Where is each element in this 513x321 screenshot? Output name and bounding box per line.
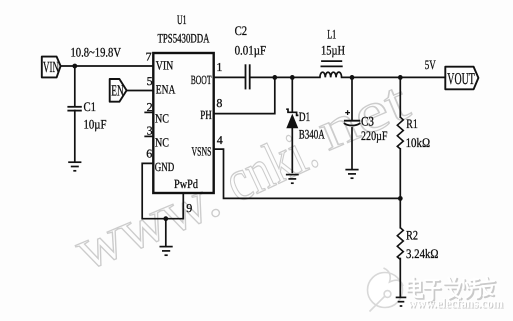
svg-text:10µF: 10µF (84, 117, 107, 132)
svg-text:0.01µF: 0.01µF (235, 43, 267, 58)
svg-text:4: 4 (217, 133, 223, 147)
svg-text:BOOT: BOOT (191, 73, 212, 87)
svg-text:D1: D1 (299, 109, 311, 124)
svg-text:VIN: VIN (43, 59, 59, 76)
svg-text:10.8~19.8V: 10.8~19.8V (71, 44, 122, 59)
svg-text:10kΩ: 10kΩ (406, 135, 431, 150)
svg-text:5V: 5V (425, 57, 436, 72)
svg-text:VOUT: VOUT (447, 69, 475, 88)
svg-text:U1: U1 (177, 12, 187, 27)
svg-text:3: 3 (147, 123, 153, 137)
svg-text:9: 9 (186, 201, 192, 215)
svg-text:NC: NC (155, 135, 169, 149)
svg-text:R2: R2 (406, 228, 418, 243)
svg-text:PH: PH (200, 108, 212, 122)
svg-text:R1: R1 (406, 116, 418, 131)
svg-text:www.elecfans.com: www.elecfans.com (408, 296, 504, 311)
svg-text:C2: C2 (235, 23, 248, 38)
svg-text:2: 2 (147, 100, 153, 114)
svg-text:C1: C1 (84, 99, 97, 114)
svg-text:TPS5430DDA: TPS5430DDA (158, 31, 210, 46)
svg-text:VIN: VIN (156, 59, 174, 73)
svg-text:220µF: 220µF (361, 128, 388, 143)
svg-text:PwPd: PwPd (174, 177, 199, 191)
svg-text:6: 6 (146, 147, 152, 161)
svg-text:GND: GND (155, 160, 175, 174)
svg-text:L1: L1 (327, 27, 336, 42)
svg-text:NC: NC (155, 111, 169, 125)
svg-text:8: 8 (216, 96, 222, 110)
svg-text:5: 5 (147, 74, 153, 88)
svg-text:ENA: ENA (156, 83, 176, 97)
svg-text:1: 1 (216, 60, 222, 74)
svg-text:EN: EN (111, 83, 124, 100)
svg-text:B340A: B340A (299, 127, 325, 142)
svg-text:C3: C3 (361, 114, 374, 129)
svg-text:VSNS: VSNS (192, 144, 212, 158)
svg-text:15µH: 15µH (321, 43, 345, 58)
svg-text:7: 7 (146, 49, 152, 63)
svg-text:www.: www. (65, 164, 229, 283)
svg-text:3.24kΩ: 3.24kΩ (406, 246, 439, 261)
